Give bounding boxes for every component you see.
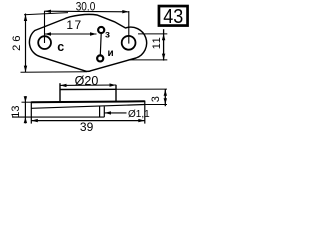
svg-text:с: с [57,40,64,54]
svg-text:26: 26 [11,32,23,50]
dimension 26 lines [21,13,88,73]
dimension Ø1,1 leader [105,112,127,114]
svg-text:30.0: 30.0 [76,1,96,14]
pin и (source) [97,55,103,61]
mounting hole left [38,36,51,49]
dimension 3 (cap height) lines [116,89,167,106]
dimension 11 lines [129,29,168,60]
svg-text:Ø20: Ø20 [75,74,99,88]
svg-text:17: 17 [66,18,82,32]
pin з (gate) [98,27,104,33]
dimension 39 line [31,120,145,122]
svg-text:3: 3 [150,96,162,102]
top view outline (TO-3 flange) [29,14,146,71]
figure number box 43 [159,6,188,26]
side view pin stub [100,107,105,118]
svg-text:11: 11 [151,37,163,49]
svg-text:и: и [108,48,114,59]
dimension 13 lines [12,96,104,123]
wire pin centerline [99,33,102,55]
dimension 30.0 lines [45,11,129,44]
svg-text:43: 43 [163,6,183,28]
svg-text:13: 13 [10,105,22,117]
svg-text:з: з [105,29,110,40]
dimension Ø20 line [60,84,116,86]
svg-text:39: 39 [80,120,94,134]
dimension 17 line [45,33,97,35]
side view flange [31,101,145,124]
mounting hole right [122,36,136,50]
svg-text:Ø1,1: Ø1,1 [128,109,150,120]
side view cap [60,83,116,102]
